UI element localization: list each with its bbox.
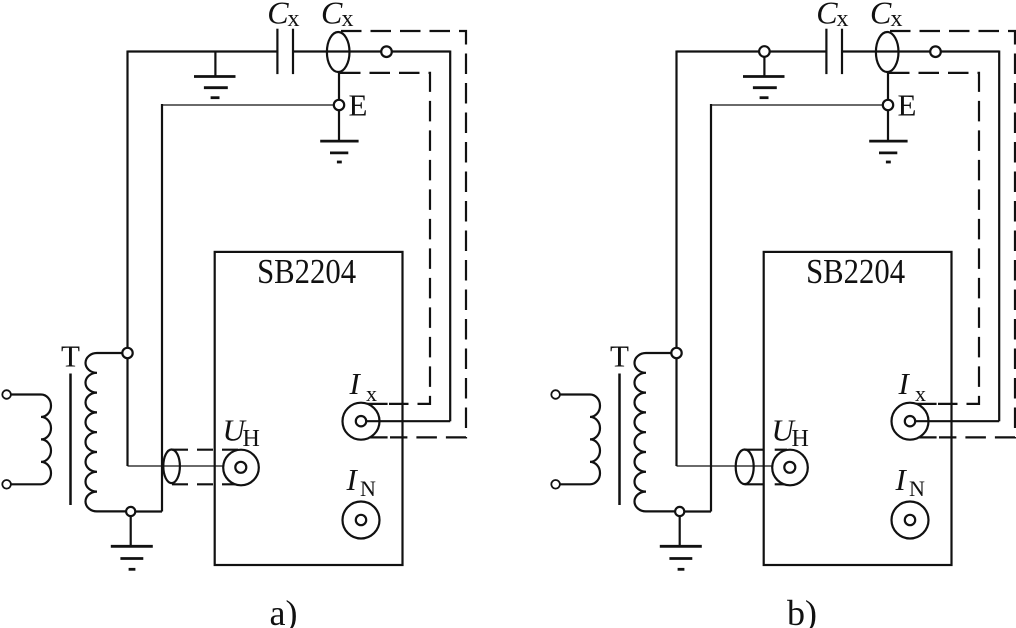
wire Ix centre conductor, circuit a) — [366, 420, 450, 422]
node E circle, circuit b) — [883, 100, 893, 110]
junction node circle secondary top, circuit a) — [122, 348, 132, 358]
svg-text:x: x — [366, 381, 377, 406]
svg-text:x: x — [837, 6, 849, 32]
terminal IN outer circle, circuit b) — [892, 502, 929, 539]
terminal Ix inner circle, circuit b) — [905, 416, 915, 426]
wire primary bottom lead, circuit b) — [560, 483, 590, 485]
wire UH centre conductor (thin), circuit a) — [128, 465, 237, 467]
terminal UH inner circle, circuit b) — [784, 462, 795, 473]
svg-text:C: C — [267, 0, 289, 31]
wire right vertical down to Ix centre conductor, circuit b) — [998, 51, 1000, 422]
svg-text:a): a) — [270, 593, 298, 628]
transformer T secondary winding, circuit a) — [86, 353, 127, 511]
open node circle on top bus, circuit a) — [381, 46, 392, 57]
shield tangent bars at Ix terminal, circuit b) — [904, 404, 937, 438]
wire from Cx bushing down through node E to ground, circuit b) — [887, 71, 889, 141]
ground symbol at top bus tap, circuit a) — [194, 77, 236, 98]
svg-text:x: x — [342, 6, 354, 32]
wire transformer ground stub, circuit b) — [679, 516, 681, 547]
node E circle, circuit a) — [334, 100, 344, 110]
wire transformer secondary bottom link, circuit b) — [684, 510, 711, 512]
transformer primary terminal bottom, circuit a) — [2, 480, 11, 489]
coax cable entry ellipse at UH, circuit a) — [163, 450, 180, 484]
SB2204 instrument box, circuit b) — [764, 252, 952, 565]
svg-text:N: N — [360, 476, 376, 501]
svg-text:I: I — [895, 462, 908, 497]
node circle at top bus ground tap, circuit b) — [759, 46, 770, 57]
terminal Ix inner circle, circuit a) — [356, 416, 366, 426]
terminal Ix outer circle, circuit a) — [343, 403, 380, 440]
terminal IN inner circle, circuit a) — [356, 515, 366, 525]
wire left vertical drop, circuit a) — [126, 51, 128, 467]
wire top horizontal from Cx right plate through bushing to corner, circuit a) — [293, 50, 450, 52]
transformer primary terminal bottom, circuit b) — [551, 480, 560, 489]
wire primary top lead, circuit a) — [11, 393, 41, 395]
capacitor Cx plates, circuit a) — [277, 29, 293, 74]
transformer T primary winding, circuit b) — [590, 395, 600, 485]
wire from Cx bushing down through node E to ground, circuit a) — [338, 71, 340, 141]
coax cable entry ellipse at UH, circuit b) — [736, 450, 754, 485]
ground symbol below transformer, circuit b) — [660, 546, 702, 569]
capacitor Cx bushing ellipse, circuit b) — [876, 32, 899, 72]
wire E-branch vertical down to transformer return, circuit b) — [710, 104, 712, 512]
svg-text:x: x — [891, 6, 903, 32]
terminal IN outer circle, circuit a) — [343, 502, 380, 539]
terminal UH outer circle, circuit b) — [772, 450, 808, 486]
svg-text:E: E — [349, 88, 368, 123]
wire ground tap stub on top bus, circuit a) — [214, 52, 216, 77]
wire right vertical down to Ix centre conductor, circuit a) — [449, 51, 451, 422]
wire E-branch vertical down to transformer return, circuit a) — [161, 104, 163, 512]
transformer T primary winding, circuit a) — [41, 395, 51, 485]
svg-text:SB2204: SB2204 — [806, 252, 905, 291]
svg-text:N: N — [909, 476, 925, 501]
shield tangent bars at Ix terminal, circuit a) — [355, 404, 388, 438]
svg-text:x: x — [288, 6, 300, 32]
wire UH centre conductor (thin), circuit b) — [677, 465, 786, 467]
terminal IN inner circle, circuit b) — [905, 515, 915, 525]
wire ground tap stub on top bus, circuit b) — [763, 57, 765, 77]
dashed shield outer run (bushing top to Ix bottom), circuit b) — [890, 31, 1015, 437]
transformer T secondary winding, circuit b) — [635, 353, 676, 511]
shield tangent bars at UH terminal, circuit b) — [775, 450, 796, 485]
wire Ix centre conductor, circuit b) — [915, 420, 999, 422]
open node circle on top bus, circuit b) — [930, 46, 941, 57]
junction node circle secondary bottom, circuit a) — [126, 507, 135, 516]
svg-text:I: I — [898, 366, 911, 401]
transformer primary terminal top, circuit a) — [2, 390, 11, 399]
dashed coax shield to UH terminal, circuit a) — [172, 450, 244, 485]
dashed shield inner run (bushing bottom to Ix top), circuit a) — [340, 73, 430, 404]
terminal Ix outer circle, circuit b) — [892, 403, 929, 440]
wire E horizontal (thin) from left vertical to node E, circuit b) — [711, 104, 883, 106]
ground symbol at top bus tap, circuit b) — [743, 77, 785, 98]
ground symbol below node E, circuit a) — [320, 141, 358, 162]
svg-text:I: I — [346, 462, 359, 497]
svg-text:T: T — [610, 339, 629, 374]
wire transformer ground stub, circuit a) — [130, 516, 132, 547]
wire E horizontal (thin) from left vertical to node E, circuit a) — [162, 104, 334, 106]
svg-text:C: C — [321, 0, 343, 31]
svg-text:E: E — [898, 88, 917, 123]
terminal UH inner circle, circuit a) — [235, 462, 246, 473]
terminal UH outer circle, circuit a) — [223, 450, 259, 486]
wire primary bottom lead, circuit a) — [11, 483, 41, 485]
wire primary top lead, circuit b) — [560, 393, 590, 395]
svg-text:C: C — [870, 0, 892, 31]
dashed shield inner run (bushing bottom to Ix top), circuit b) — [889, 73, 979, 404]
svg-text:SB2204: SB2204 — [257, 252, 356, 291]
svg-text:b): b) — [787, 593, 817, 628]
wire transformer secondary bottom link, circuit a) — [135, 510, 162, 512]
svg-text:I: I — [349, 366, 362, 401]
svg-text:T: T — [61, 339, 80, 374]
wire top-left horizontal (node top bus to Cx left plate), circuit a) — [128, 50, 278, 52]
transformer primary terminal top, circuit b) — [551, 390, 560, 399]
svg-text:x: x — [915, 381, 926, 406]
solid coax shield to box edge at UH, circuit b) — [745, 450, 765, 485]
wire top horizontal from Cx right plate through bushing to corner, circuit b) — [842, 50, 999, 52]
wire top-left horizontal (node top bus to Cx left plate), circuit b) — [677, 50, 827, 52]
junction node circle secondary top, circuit b) — [671, 348, 681, 358]
transformer T core bar, circuit b) — [618, 374, 621, 506]
SB2204 instrument box, circuit a) — [215, 252, 403, 565]
svg-text:H: H — [243, 426, 260, 452]
svg-text:C: C — [816, 0, 838, 31]
capacitor Cx bushing ellipse, circuit a) — [327, 32, 350, 72]
svg-text:H: H — [792, 426, 809, 452]
transformer T core bar, circuit a) — [69, 374, 72, 506]
dashed shield outer run (bushing top to Ix bottom), circuit a) — [341, 31, 466, 437]
ground symbol below transformer, circuit a) — [111, 546, 153, 569]
capacitor Cx plates, circuit b) — [826, 29, 842, 74]
wire left vertical drop, circuit b) — [675, 51, 677, 467]
junction node circle secondary bottom, circuit b) — [675, 507, 684, 516]
ground symbol below node E, circuit b) — [869, 141, 907, 162]
